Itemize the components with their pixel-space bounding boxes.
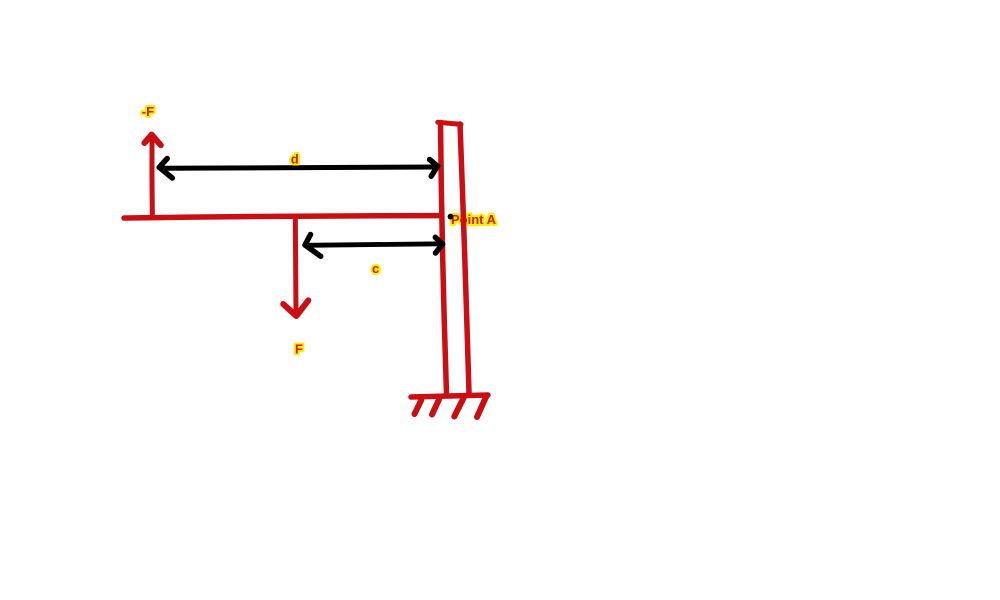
ground hatch 3 [454, 398, 464, 417]
ground line [411, 395, 488, 397]
force arrow -F head [144, 135, 160, 146]
svg-text:F: F [295, 342, 303, 357]
ground hatch 1 [415, 400, 422, 414]
ground hatch 2 [432, 400, 439, 415]
dimension arrow c shaft [306, 244, 442, 246]
dimension arrow d left head [159, 159, 172, 179]
svg-text:c: c [372, 261, 379, 276]
column right line [460, 124, 469, 393]
label Point A [451, 212, 497, 227]
column top bar [438, 122, 461, 124]
force arrow F shaft [293, 218, 299, 311]
dimension arrow d right head [430, 160, 438, 177]
column left line [441, 123, 447, 394]
ground hatch 4 [477, 397, 486, 418]
beam (horizontal red member) [124, 216, 442, 218]
dimension arrow d shaft [163, 167, 436, 168]
dimension arrow c right head [435, 237, 442, 253]
svg-text:Point A: Point A [451, 212, 497, 227]
svg-text:d: d [291, 152, 299, 167]
node Point A dot [448, 214, 454, 220]
force arrow F head [283, 300, 308, 316]
force arrow -F shaft [149, 137, 154, 214]
dimension arrow c left head [305, 235, 321, 257]
svg-text:-F: -F [142, 104, 154, 119]
